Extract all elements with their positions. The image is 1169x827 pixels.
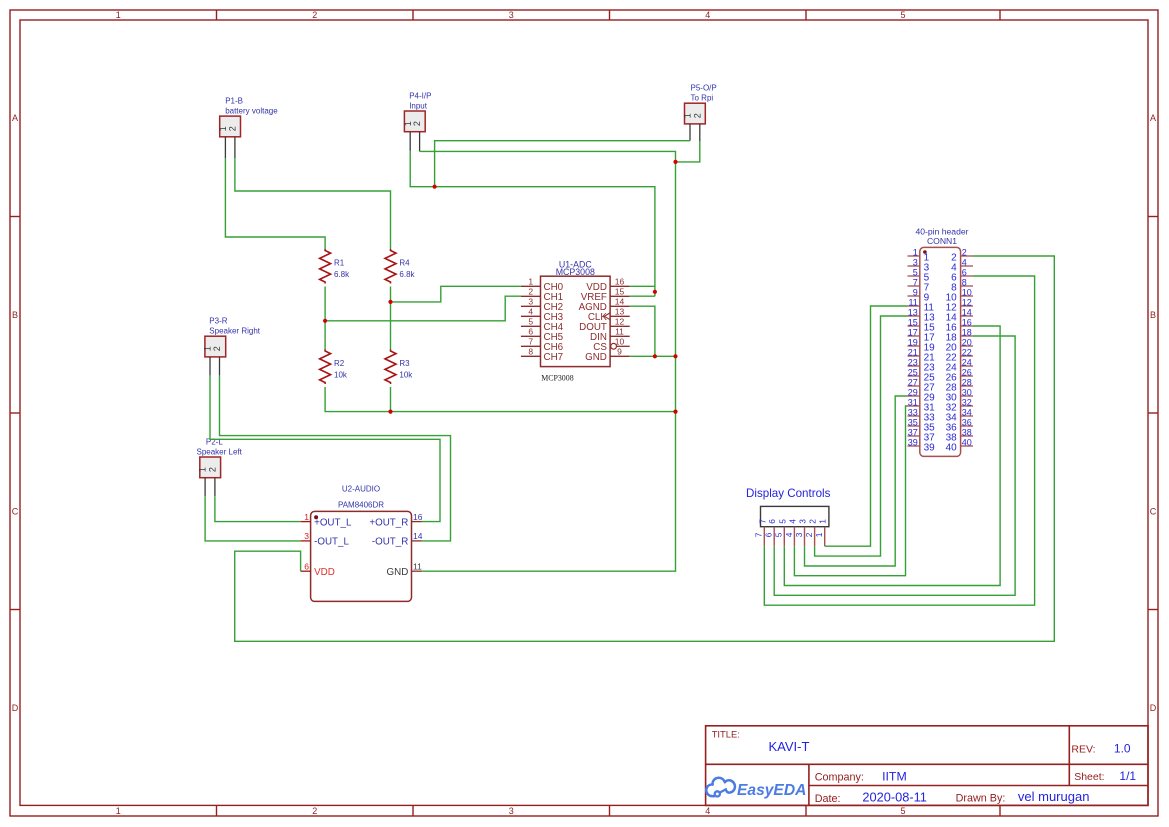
wire P5.1 across [435,141,690,187]
CONN1 pin 4 [961,265,973,267]
svg-text:12: 12 [962,298,972,308]
connector CONN1 40-pin header [908,247,974,456]
svg-text:IITM: IITM [882,769,907,783]
CONN1 pin 38 [961,435,973,437]
svg-text:26: 26 [962,368,972,378]
wire R3 bottom stub [390,387,392,412]
CONN1 pin 37 [908,435,920,437]
svg-text:+OUT_L: +OUT_L [314,517,352,528]
svg-text:REV:: REV: [1071,744,1095,756]
wire R2 bottom rail [325,387,675,412]
svg-text:28: 28 [962,378,972,388]
svg-text:A: A [12,113,18,123]
CONN1 pin 20 [961,345,973,347]
svg-text:25: 25 [908,368,918,378]
CONN1 pin 21 [908,355,920,357]
svg-text:Drawn By:: Drawn By: [956,792,1006,804]
P5 pin stubs [690,124,700,141]
wire DC4-CONN31 [794,406,907,576]
svg-text:3: 3 [509,806,514,816]
svg-text:MCP3008: MCP3008 [541,374,574,383]
Display Controls pin 7 [763,527,765,547]
CONN1 pin 9 [908,295,920,297]
CONN1 pin 29 [908,395,920,397]
title block [706,726,1148,806]
svg-text:29: 29 [908,388,918,398]
wire P1.2 to R4 top [235,158,391,249]
svg-text:battery voltage: battery voltage [225,107,278,116]
svg-text:2: 2 [528,287,533,297]
Display Controls pin 1 [824,527,826,547]
svg-text:1: 1 [203,346,213,351]
CONN1 pin 32 [961,405,973,407]
U1 pin 7 (CH6) [521,345,541,347]
CONN1 pin 2 [961,255,973,257]
svg-text:Speaker Right: Speaker Right [209,327,260,336]
CONN1 pin 15 [908,325,920,327]
CONN1 pin 22 [961,355,973,357]
svg-text:10: 10 [962,288,972,298]
wire P3.2 to U2 -OUT_R [220,376,451,541]
svg-text:10k: 10k [334,370,348,379]
CONN1 pin 40 [961,445,973,447]
svg-text:2: 2 [804,532,814,537]
svg-text:GND: GND [387,567,409,578]
svg-text:2: 2 [312,10,317,20]
svg-text:40: 40 [946,443,958,454]
svg-text:35: 35 [908,418,918,428]
Display Controls pin 4 [793,527,795,547]
U1 pin 13 (CLK) [610,315,630,317]
U1 pin 9 (GND) [610,355,630,357]
svg-text:14: 14 [413,531,423,541]
wire DC1-CONN11 [825,306,908,546]
U2 pin 16 (+OUT_R) [412,521,422,523]
svg-text:P3-R: P3-R [209,317,227,326]
svg-text:10: 10 [615,337,625,347]
svg-text:Company:: Company: [815,772,864,784]
U1 pin 11 (DIN) [610,335,630,337]
svg-text:EasyEDA: EasyEDA [737,782,806,799]
svg-text:5: 5 [900,10,905,20]
P3 pin stubs [210,357,220,376]
svg-text:34: 34 [962,408,972,418]
svg-text:38: 38 [962,428,972,438]
wire DC5-CONN16 [784,326,1000,586]
EasyEDA logo [706,778,735,797]
svg-text:16: 16 [962,318,972,328]
svg-text:PAM8406DR: PAM8406DR [338,501,384,510]
wire U1 VREF pin15 [630,295,655,297]
svg-text:6: 6 [528,327,533,337]
svg-text:2: 2 [212,346,222,351]
U1 pin 8 (CH7) [521,355,541,357]
Display Controls pin 3 [804,527,806,547]
wire net VDD-A to U1 [435,187,655,297]
svg-text:1/1: 1/1 [1119,769,1136,783]
svg-text:40-pin header: 40-pin header [915,227,968,237]
wire DC3-CONN29 [805,396,908,566]
svg-text:3: 3 [304,531,309,541]
junction VDD/VREF [653,290,657,294]
U1 pin 2 (CH1) [521,295,541,297]
svg-text:7: 7 [754,532,764,537]
svg-text:9: 9 [913,288,918,298]
svg-text:6.8k: 6.8k [399,270,415,279]
wire U2 VDD to CONN1 pin2 [235,256,1055,641]
CONN1 pin 11 [908,305,920,307]
svg-text:11: 11 [413,561,422,571]
svg-text:32: 32 [962,398,972,408]
CONN1 pin 25 [908,375,920,377]
svg-text:1: 1 [818,519,828,524]
svg-text:3: 3 [794,532,804,537]
wire DC2-CONN13 [815,316,908,556]
wire P2.1 to U2 -OUT_L [205,496,301,541]
U1 pin 5 (CH4) [521,325,541,327]
CONN1 pin 35 [908,425,920,427]
U2 pin 1 (+OUT_L) [301,521,311,523]
svg-text:9: 9 [617,347,622,357]
svg-text:GND: GND [585,352,607,363]
CONN1 pin 39 [908,445,920,447]
connector P5-O/P [683,103,706,124]
U2 pin 11 (GND) [412,570,422,572]
svg-text:2: 2 [692,113,702,118]
svg-text:3: 3 [528,297,533,307]
svg-text:2: 2 [412,121,422,126]
svg-text:1: 1 [116,806,121,816]
svg-text:C: C [12,506,19,516]
svg-text:P5-O/P: P5-O/P [691,84,717,93]
svg-text:18: 18 [962,328,972,338]
svg-text:16: 16 [413,512,423,522]
P4 pin stubs [410,132,419,152]
wire junction to R2 [324,321,326,350]
svg-text:R2: R2 [334,359,345,368]
resistor R1 (6.8k) [320,249,331,284]
wire P3.1 to U2 +OUT_R [210,376,440,522]
wire DC6-CONN18 [774,336,1015,595]
svg-text:U2-AUDIO: U2-AUDIO [342,485,380,494]
svg-text:22: 22 [962,348,972,358]
svg-text:CONN1: CONN1 [927,236,957,246]
junction GND rail x675 [673,354,677,358]
svg-text:2: 2 [228,126,238,131]
svg-text:31: 31 [908,398,918,408]
junction R3 bottom [388,410,392,414]
U1 pin 16 (VDD) [610,285,630,287]
P1 pin stubs [225,137,235,158]
Display Controls pin 2 [814,527,816,547]
wire P5.2 down [676,141,700,162]
svg-text:1: 1 [116,10,121,20]
U2 pin 14 (-OUT_R) [412,540,422,542]
svg-text:6: 6 [764,532,774,537]
junction AGND-GND [653,354,657,358]
svg-text:P1-B: P1-B [225,97,243,106]
svg-text:2: 2 [312,806,317,816]
resistor R2 (10k) [320,350,331,385]
wire net GND vertical [422,162,676,571]
svg-text:17: 17 [908,328,918,338]
CONN1 pin 3 [908,265,920,267]
svg-text:4: 4 [962,258,967,268]
svg-text:-OUT_L: -OUT_L [314,537,349,548]
Display Controls pin 6 [773,527,775,547]
svg-text:KAVI-T: KAVI-T [769,739,810,754]
CONN1 pin 16 [961,325,973,327]
svg-text:Sheet:: Sheet: [1074,771,1104,783]
wire DC7-CONN6 [764,276,1034,605]
svg-text:3: 3 [913,258,918,268]
junction P4.2/P5.2 [673,160,677,164]
connector Display Controls (7-pin) [754,506,829,546]
connector P3-R [203,336,226,357]
svg-text:2: 2 [808,519,818,524]
svg-text:13: 13 [615,307,625,317]
svg-text:VDD: VDD [314,567,335,578]
svg-text:6.8k: 6.8k [334,270,350,279]
svg-text:24: 24 [962,358,972,368]
CONN1 pin 34 [961,415,973,417]
svg-text:R3: R3 [399,359,410,368]
CONN1 pin 17 [908,335,920,337]
svg-text:10k: 10k [399,370,413,379]
junction R4 bottom [388,300,392,304]
CONN1 pin 28 [961,385,973,387]
wire R4 bottom to junction [390,287,392,302]
CONN1 pin 31 [908,405,920,407]
svg-text:2: 2 [962,248,967,258]
svg-text:1: 1 [218,126,228,131]
CONN1 pin 7 [908,285,920,287]
svg-text:R4: R4 [399,258,410,267]
svg-text:20: 20 [962,338,972,348]
CONN1 pin 10 [961,295,973,297]
wire junction to U1 CH0 [391,286,521,302]
svg-text:1: 1 [814,532,824,537]
svg-text:CH7: CH7 [544,352,564,363]
CONN1 pin 18 [961,335,973,337]
svg-text:vel murugan: vel murugan [1018,789,1090,804]
wire R1 bottom to junction [324,287,326,321]
CONN1 pin 36 [961,425,973,427]
svg-text:6: 6 [304,561,309,571]
CONN1 pin 6 [961,275,973,277]
U1 pin 14 (AGND) [610,305,630,307]
svg-text:4: 4 [787,519,797,524]
svg-text:1: 1 [528,277,533,287]
svg-text:D: D [1150,703,1157,713]
svg-text:15: 15 [615,287,625,297]
svg-text:33: 33 [908,408,918,418]
svg-text:21: 21 [908,348,918,358]
U1 pin 10 (CS) [611,343,617,349]
CONN1 pin 27 [908,385,920,387]
svg-text:7: 7 [913,278,918,288]
U1 pin 6 (CH5) [521,335,541,337]
svg-text:4: 4 [528,307,533,317]
svg-text:6: 6 [767,519,777,524]
wire U1 AGND pin14 [630,306,655,356]
svg-text:19: 19 [908,338,918,348]
U1 pin 15 (VREF) [610,295,630,297]
svg-text:30: 30 [962,388,972,398]
svg-text:7: 7 [757,519,767,524]
wire U1 GND pin9 [630,355,676,357]
CONN1 pin 19 [908,345,920,347]
wire junction to U1 CH1 [325,296,521,321]
svg-text:D: D [12,703,19,713]
svg-text:3: 3 [798,519,808,524]
svg-text:4: 4 [705,10,710,20]
svg-text:1: 1 [198,467,208,472]
CONN1 pin 23 [908,365,920,367]
CONN1 pin 8 [961,285,973,287]
op-amp U1-ADC MCP3008 [521,276,630,366]
connector P1-B [218,116,241,137]
svg-text:5: 5 [777,519,787,524]
svg-text:39: 39 [908,438,918,448]
wire P4.1 down [410,151,434,187]
U1 pin 12 (DOUT) [610,325,630,327]
svg-text:14: 14 [615,297,625,307]
svg-text:16: 16 [615,277,625,287]
svg-text:A: A [1150,113,1156,123]
CONN1 pin 33 [908,415,920,417]
CONN1 pin 14 [961,315,973,317]
wire U1 VDD pin16 [630,285,655,287]
svg-text:B: B [1150,310,1156,320]
U2 pin 3 (-OUT_L) [301,540,311,542]
junction P4.1/P5.1 [433,185,437,189]
svg-text:11: 11 [615,327,624,337]
resistor R3 (10k) [385,350,396,385]
svg-text:C: C [1150,506,1157,516]
wire P2.2 to U2 +OUT_L [215,496,301,521]
U1 pin 1 (CH0) [521,285,541,287]
svg-text:R1: R1 [334,258,345,267]
svg-text:5: 5 [900,806,905,816]
svg-text:7: 7 [528,337,533,347]
svg-text:To Rpi: To Rpi [691,94,714,103]
svg-text:11: 11 [908,298,917,308]
svg-text:12: 12 [615,317,625,327]
svg-text:3: 3 [509,10,514,20]
CONN1 pin 13 [908,315,920,317]
svg-text:2020-08-11: 2020-08-11 [862,790,927,805]
svg-text:39: 39 [924,443,936,454]
svg-text:37: 37 [908,428,918,438]
resistor R4 (6.8k) [385,249,396,284]
svg-text:15: 15 [908,318,918,328]
connector P2-L [198,457,221,478]
svg-text:MCP3008: MCP3008 [556,267,595,277]
CONN1 pin 30 [961,395,973,397]
CONN1 pin 12 [961,305,973,307]
audio amp U2-AUDIO PAM8406DR [301,511,423,601]
svg-text:4: 4 [705,806,710,816]
svg-text:TITLE:: TITLE: [712,729,740,740]
Display Controls pin 5 [783,527,785,547]
svg-text:P4-I/P: P4-I/P [409,91,431,100]
svg-text:-OUT_R: -OUT_R [372,537,408,548]
svg-text:8: 8 [962,278,967,288]
svg-text:Speaker Left: Speaker Left [197,447,243,456]
U2 pin 6 (VDD) [301,570,311,572]
P2 pin stubs [205,478,215,497]
junction R1 bottom [323,319,327,323]
svg-text:40: 40 [962,438,972,448]
svg-text:4: 4 [784,532,794,537]
svg-text:+OUT_R: +OUT_R [369,517,408,528]
wire P4.2 across [420,151,676,162]
CONN1 pin 1 [908,255,920,257]
svg-text:14: 14 [962,308,972,318]
svg-text:27: 27 [908,378,918,388]
svg-text:36: 36 [962,418,972,428]
svg-text:1: 1 [913,248,918,258]
svg-text:23: 23 [908,358,918,368]
connector P4-I/P [403,111,425,132]
svg-text:Input: Input [409,101,428,110]
svg-text:13: 13 [908,308,918,318]
svg-text:6: 6 [962,268,967,278]
svg-text:Date:: Date: [815,793,841,805]
wire P1.1 to R1 top [225,158,325,249]
svg-text:5: 5 [774,532,784,537]
svg-text:1: 1 [683,113,693,118]
svg-text:2: 2 [208,467,218,472]
svg-text:5: 5 [913,268,918,278]
svg-text:1.0: 1.0 [1114,742,1131,756]
svg-text:Display Controls: Display Controls [746,487,831,500]
U1 pin 4 (CH3) [521,315,541,317]
svg-text:5: 5 [528,317,533,327]
junction R rail x675 [673,410,677,414]
wire junction to R3 [390,302,392,350]
CONN1 pin 24 [961,365,973,367]
U1 pin 3 (CH2) [521,305,541,307]
CONN1 pin 5 [908,275,920,277]
CONN1 pin 26 [961,375,973,377]
svg-text:8: 8 [528,347,533,357]
svg-text:B: B [12,310,18,320]
svg-text:1: 1 [304,512,309,522]
